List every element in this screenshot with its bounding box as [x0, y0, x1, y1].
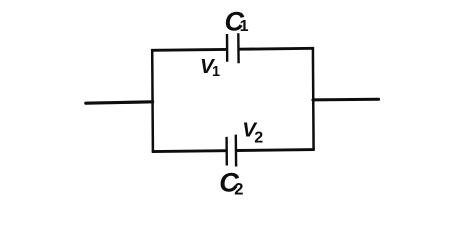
wire: left external lead [86, 102, 153, 103]
wire: bottom left segment [152, 149, 226, 153]
wire: bottom right segment [236, 148, 315, 152]
capacitor C2 (plates) [227, 135, 237, 167]
label V1 [200, 55, 220, 80]
label C2 [219, 167, 243, 198]
svg-text:1: 1 [240, 18, 249, 35]
label C1 [225, 6, 249, 36]
wire: left side of loop [151, 49, 154, 151]
label V2 [242, 119, 263, 147]
svg-text:2: 2 [254, 130, 263, 147]
wire: top left segment [151, 48, 226, 52]
capacitor C1 (plates) [227, 33, 239, 63]
wire: right external lead [313, 98, 379, 102]
wire: top right segment [239, 47, 314, 51]
svg-text:1: 1 [212, 64, 220, 80]
wire: right side of loop [312, 47, 315, 149]
svg-text:2: 2 [234, 180, 243, 198]
